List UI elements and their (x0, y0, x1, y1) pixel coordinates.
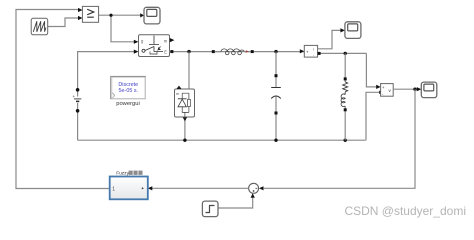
scope1 block (345, 22, 361, 39)
svg-text:powergui: powergui (116, 101, 140, 107)
inductor series RLC branch (L) (212, 49, 254, 55)
powergui block (111, 76, 146, 107)
bottom rail (78, 139, 366, 141)
node: capacitor bottom junction (274, 139, 277, 142)
V- port marker (379, 91, 382, 94)
diode block (175, 86, 195, 117)
svg-text:i: i (313, 47, 314, 52)
wire: feedback from fuzzy output left side up to relational operator input (16, 10, 110, 189)
step block (202, 201, 218, 217)
node: load branch junction (344, 52, 347, 55)
switch arm from C circle (142, 49, 145, 52)
label 1 bottom (150, 52, 157, 55)
diode anode port arrow (183, 117, 187, 121)
arrow into scope2 (417, 87, 422, 91)
node: E port marker (170, 50, 173, 53)
svg-text:1: 1 (112, 186, 115, 192)
scope2 block (421, 82, 437, 98)
svg-text:m: m (164, 38, 168, 43)
node: junction at relational output (109, 14, 112, 17)
current meas right port marker (318, 52, 321, 55)
arrow into Scope (140, 13, 144, 17)
wire: V output to scope2 and feedback junction (393, 88, 418, 90)
arrow into current measurement block (300, 49, 305, 53)
resistor zigzag (343, 82, 348, 92)
wire: IGBT E to rail right (170, 51, 305, 53)
arrow into sum right input (259, 186, 264, 190)
voltage measurement block (381, 84, 394, 97)
wire: relational operator output to scope and junction (99, 14, 141, 16)
relational operator block >= (82, 6, 98, 22)
node: capacitor branch junction on rail (274, 50, 277, 53)
antiparallel diode (158, 47, 161, 50)
arrow into relational op input 2 (78, 16, 83, 20)
fuzzy controller block (110, 171, 148, 200)
svg-text:E: E (164, 49, 167, 54)
wire: sum output to fuzzy input (152, 187, 249, 189)
wire: battery + up and right to IGBT C port (78, 52, 134, 90)
current measurement block (304, 45, 317, 57)
svg-text:+: + (306, 49, 309, 54)
V+ port arrow (376, 85, 380, 89)
gate vertical line with bar (149, 36, 159, 45)
svg-text:5e-05 s.: 5e-05 s. (119, 88, 138, 94)
arrow into sum bottom (251, 193, 255, 197)
svg-text:CSDN @studyer_domi: CSDN @studyer_domi (344, 204, 466, 218)
wire: step block to sum bottom input (218, 198, 253, 208)
node: feedback junction (413, 88, 416, 91)
diode symbol (178, 99, 186, 107)
battery DC voltage source (73, 88, 82, 140)
node: diode bottom junction (183, 139, 186, 142)
repeating sequence block (31, 18, 48, 35)
arrow into IGBT gate g (134, 40, 139, 44)
arrow into relational op input 1 (78, 8, 83, 12)
svg-text:+: + (73, 94, 76, 99)
node: load bottom junction (344, 139, 347, 142)
node: diode branch junction on rail (187, 50, 190, 53)
wire: rail continues right of current measurement (318, 52, 367, 54)
arrow into fuzzy block input (points left) (148, 186, 153, 190)
capacitor branch (271, 52, 281, 141)
load series RLC branch (R + L vertical) (341, 53, 348, 140)
wire: i output to scope1 (318, 30, 342, 48)
arrow into scope1 (340, 28, 345, 32)
sum block (249, 183, 259, 193)
tiny red arrow at right port (246, 50, 249, 52)
m port arrow at top-left pointing up (176, 86, 181, 89)
wire: repeating sequence to relational operator second input (48, 18, 80, 27)
scope block (PWM scope) (144, 7, 160, 24)
wire: rail to V+ (366, 53, 377, 87)
arrow into IGBT C (134, 50, 139, 54)
wire: junction down to IGBT gate (111, 15, 134, 42)
snubber resistor (188, 99, 191, 106)
wire: V- down to rail end (366, 92, 381, 140)
wire: feedback down and left to sum block (264, 89, 415, 188)
inductor coils vertical (341, 94, 345, 107)
wire: diode bottom to rail (184, 117, 186, 140)
wire: rail down to diode top (188, 52, 190, 89)
IGBT m output arrow (unconnected) (170, 38, 175, 42)
IGBT block (139, 35, 170, 57)
